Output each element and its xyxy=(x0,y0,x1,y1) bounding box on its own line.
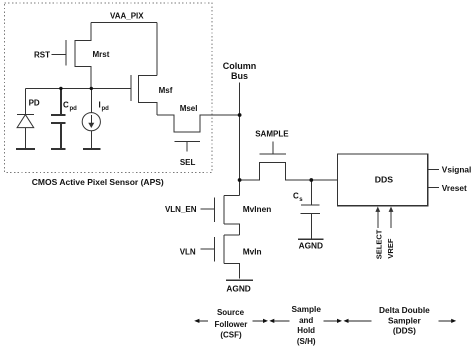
svg-text:Vsignal: Vsignal xyxy=(442,165,472,175)
svg-text:s: s xyxy=(299,197,303,203)
svg-text:and: and xyxy=(299,316,313,325)
svg-text:C: C xyxy=(293,192,299,201)
svg-text:(S/H): (S/H) xyxy=(297,337,316,346)
svg-text:VREF: VREF xyxy=(386,238,395,258)
svg-text:pd: pd xyxy=(102,106,110,112)
svg-text:CMOS Active Pixel Sensor (APS): CMOS Active Pixel Sensor (APS) xyxy=(32,177,164,187)
svg-text:SEL: SEL xyxy=(180,158,196,167)
svg-text:(DDS): (DDS) xyxy=(393,326,416,336)
svg-text:Sample: Sample xyxy=(291,304,321,314)
svg-text:Source: Source xyxy=(217,308,245,317)
svg-text:SAMPLE: SAMPLE xyxy=(255,130,289,139)
svg-text:VLN: VLN xyxy=(180,248,196,257)
svg-text:Delta Double: Delta Double xyxy=(379,305,430,315)
svg-text:(CSF): (CSF) xyxy=(220,330,242,339)
svg-text:Vreset: Vreset xyxy=(442,183,467,193)
svg-text:Msf: Msf xyxy=(159,86,173,95)
svg-text:Sampler: Sampler xyxy=(388,315,422,325)
svg-text:SELECT: SELECT xyxy=(375,229,384,259)
svg-text:VAA_PIX: VAA_PIX xyxy=(110,11,144,20)
svg-text:AGND: AGND xyxy=(226,284,250,294)
svg-text:I: I xyxy=(99,101,101,110)
svg-text:AGND: AGND xyxy=(299,241,323,251)
svg-text:Mrst: Mrst xyxy=(93,50,110,59)
svg-text:Mvlnen: Mvlnen xyxy=(243,204,272,214)
svg-text:Mvln: Mvln xyxy=(243,247,262,257)
svg-text:DDS: DDS xyxy=(375,175,394,185)
svg-text:Hold: Hold xyxy=(297,326,315,335)
svg-text:PD: PD xyxy=(29,98,40,107)
svg-text:Follower: Follower xyxy=(214,320,247,329)
svg-text:Column: Column xyxy=(223,61,257,71)
svg-text:RST: RST xyxy=(34,50,50,59)
svg-text:Msel: Msel xyxy=(180,104,198,113)
svg-text:pd: pd xyxy=(70,106,78,112)
svg-text:C: C xyxy=(63,101,69,110)
svg-text:Bus: Bus xyxy=(231,71,248,81)
svg-text:VLN_EN: VLN_EN xyxy=(165,205,197,214)
